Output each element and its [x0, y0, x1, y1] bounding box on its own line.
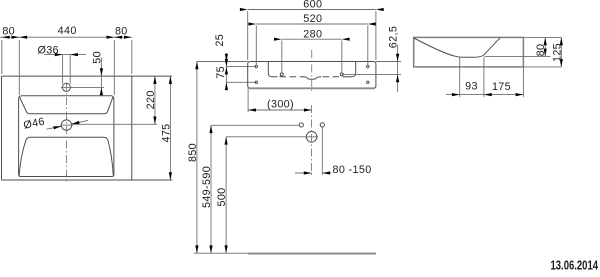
80 dimension line	[544, 37, 546, 56]
svg-text:549-590: 549-590	[201, 166, 213, 208]
svg-text:500: 500	[216, 187, 228, 206]
inner hole left	[280, 73, 283, 76]
mounting hole top-left	[255, 65, 257, 67]
side top extension line	[523, 36, 561, 38]
62,5 bottom extension (inner holes level)	[342, 73, 401, 75]
supply connection right	[320, 123, 324, 127]
125 dimension line	[560, 37, 562, 67]
arrows for 80/440/80	[2, 36, 10, 39]
(300) dimension line	[248, 109, 312, 111]
dia 36 dimension line	[44, 54, 86, 56]
bowl inner bottom edge	[26, 137, 108, 141]
500 dimension line	[225, 137, 227, 253]
mounting hole bottom-right	[367, 81, 369, 83]
svg-text:62,5: 62,5	[387, 26, 399, 48]
svg-text:(300): (300)	[267, 99, 294, 111]
svg-text:600: 600	[303, 0, 322, 11]
549-590 extension line to supply	[211, 124, 299, 126]
svg-text:80: 80	[115, 26, 128, 38]
svg-text:520: 520	[303, 13, 322, 25]
svg-text:175: 175	[492, 81, 511, 93]
850 dimension line	[196, 62, 198, 254]
dimension line 80/440/80	[0, 36, 132, 38]
50 dimension line	[100, 58, 102, 95]
(300) extension line	[247, 89, 249, 113]
600 extension lines	[248, 11, 376, 60]
floor line thin	[194, 252, 376, 254]
rear view centerline	[311, 50, 313, 92]
supply connection left	[299, 123, 303, 127]
svg-text:25: 25	[214, 34, 226, 47]
side view outline	[414, 37, 524, 67]
bowl hidden outline	[268, 62, 277, 77]
svg-text:80 -150: 80 -150	[333, 164, 372, 176]
drain outlet circle	[306, 132, 317, 143]
80-150 dimension line left part	[295, 172, 312, 174]
280 dimension line	[282, 38, 342, 40]
side view bowl profile	[414, 38, 500, 57]
lower centerline	[311, 105, 313, 177]
bowl corner diagonal bottom-left	[19, 141, 26, 176]
svg-text:75: 75	[215, 66, 227, 79]
mounting hole top-right	[367, 65, 369, 67]
62,5 top extension	[376, 61, 401, 63]
plan centerline (vertical dash-dot)	[65, 83, 67, 184]
175 extension line right	[522, 68, 524, 98]
dia46 leader left segment	[47, 126, 62, 129]
svg-text:13.06.2014: 13.06.2014	[551, 259, 599, 273]
mounting hole bottom-left	[255, 81, 257, 83]
520 extension lines	[256, 26, 368, 66]
dia36 tangent extension left	[62, 55, 64, 84]
svg-text:220: 220	[145, 90, 157, 109]
549-590 dimension line	[210, 125, 212, 253]
bottom dimension line 93/175	[446, 94, 523, 96]
rear view bottom thick edge	[249, 87, 375, 89]
svg-text:440: 440	[58, 25, 77, 37]
475 dimension line	[169, 76, 171, 180]
220 extension line from drain	[72, 123, 157, 125]
600 dimension line	[248, 9, 376, 11]
rear view body outline	[248, 62, 376, 89]
faucet hole center marks	[61, 86, 72, 88]
svg-text:93: 93	[465, 81, 478, 93]
svg-text:80: 80	[535, 44, 547, 57]
850 top extension line	[197, 61, 248, 63]
bowl inner top edge	[26, 110, 108, 114]
svg-text:80: 80	[2, 26, 15, 38]
floor line thick	[248, 253, 376, 255]
bowl corner diagonal top-right	[108, 97, 113, 110]
500 extension line to drain outlet	[226, 136, 306, 138]
93/175 extension line middle	[483, 57, 485, 97]
520 dimension line	[256, 23, 368, 25]
inner hole right	[340, 73, 343, 76]
plan view outer rect	[2, 76, 173, 180]
dia36 tangent extension right	[69, 55, 71, 84]
extension line left rim	[18, 40, 20, 95]
bowl corner diagonal bottom-right	[108, 141, 113, 176]
drain center marks	[60, 124, 73, 126]
220 dimension line	[154, 76, 156, 124]
bowl corner diagonal top-left	[20, 97, 26, 110]
svg-text:280: 280	[303, 28, 322, 40]
faucet hole circle	[62, 83, 70, 91]
svg-text:125: 125	[551, 43, 563, 62]
extension line left edge	[1, 40, 3, 74]
25/75 dimension line	[225, 53, 227, 89]
80-150 dimension line right part	[322, 172, 331, 174]
side bottom extension line	[523, 66, 561, 68]
62,5 dimension line	[397, 45, 399, 92]
280 extension lines	[282, 41, 342, 74]
lower holes extension line	[226, 81, 256, 83]
svg-text:50: 50	[91, 51, 103, 64]
plan view basin rim (rounded rect)	[19, 96, 114, 177]
upper holes extension line	[226, 66, 256, 68]
80-150 extension line	[321, 128, 323, 175]
svg-text:475: 475	[160, 123, 172, 142]
dia46 leader right segment	[72, 120, 88, 124]
93 extension line left	[459, 58, 461, 98]
drain circle	[61, 120, 71, 130]
extension line right rim	[113, 40, 115, 95]
svg-text:850: 850	[187, 143, 199, 162]
svg-text:Ø36: Ø36	[37, 44, 58, 56]
drain outlet center mark	[305, 136, 318, 138]
80 extension line (bowl bottom level)	[485, 55, 551, 57]
extension line right edge	[131, 40, 133, 74]
50 dimension: extension from faucet hole	[70, 86, 104, 88]
